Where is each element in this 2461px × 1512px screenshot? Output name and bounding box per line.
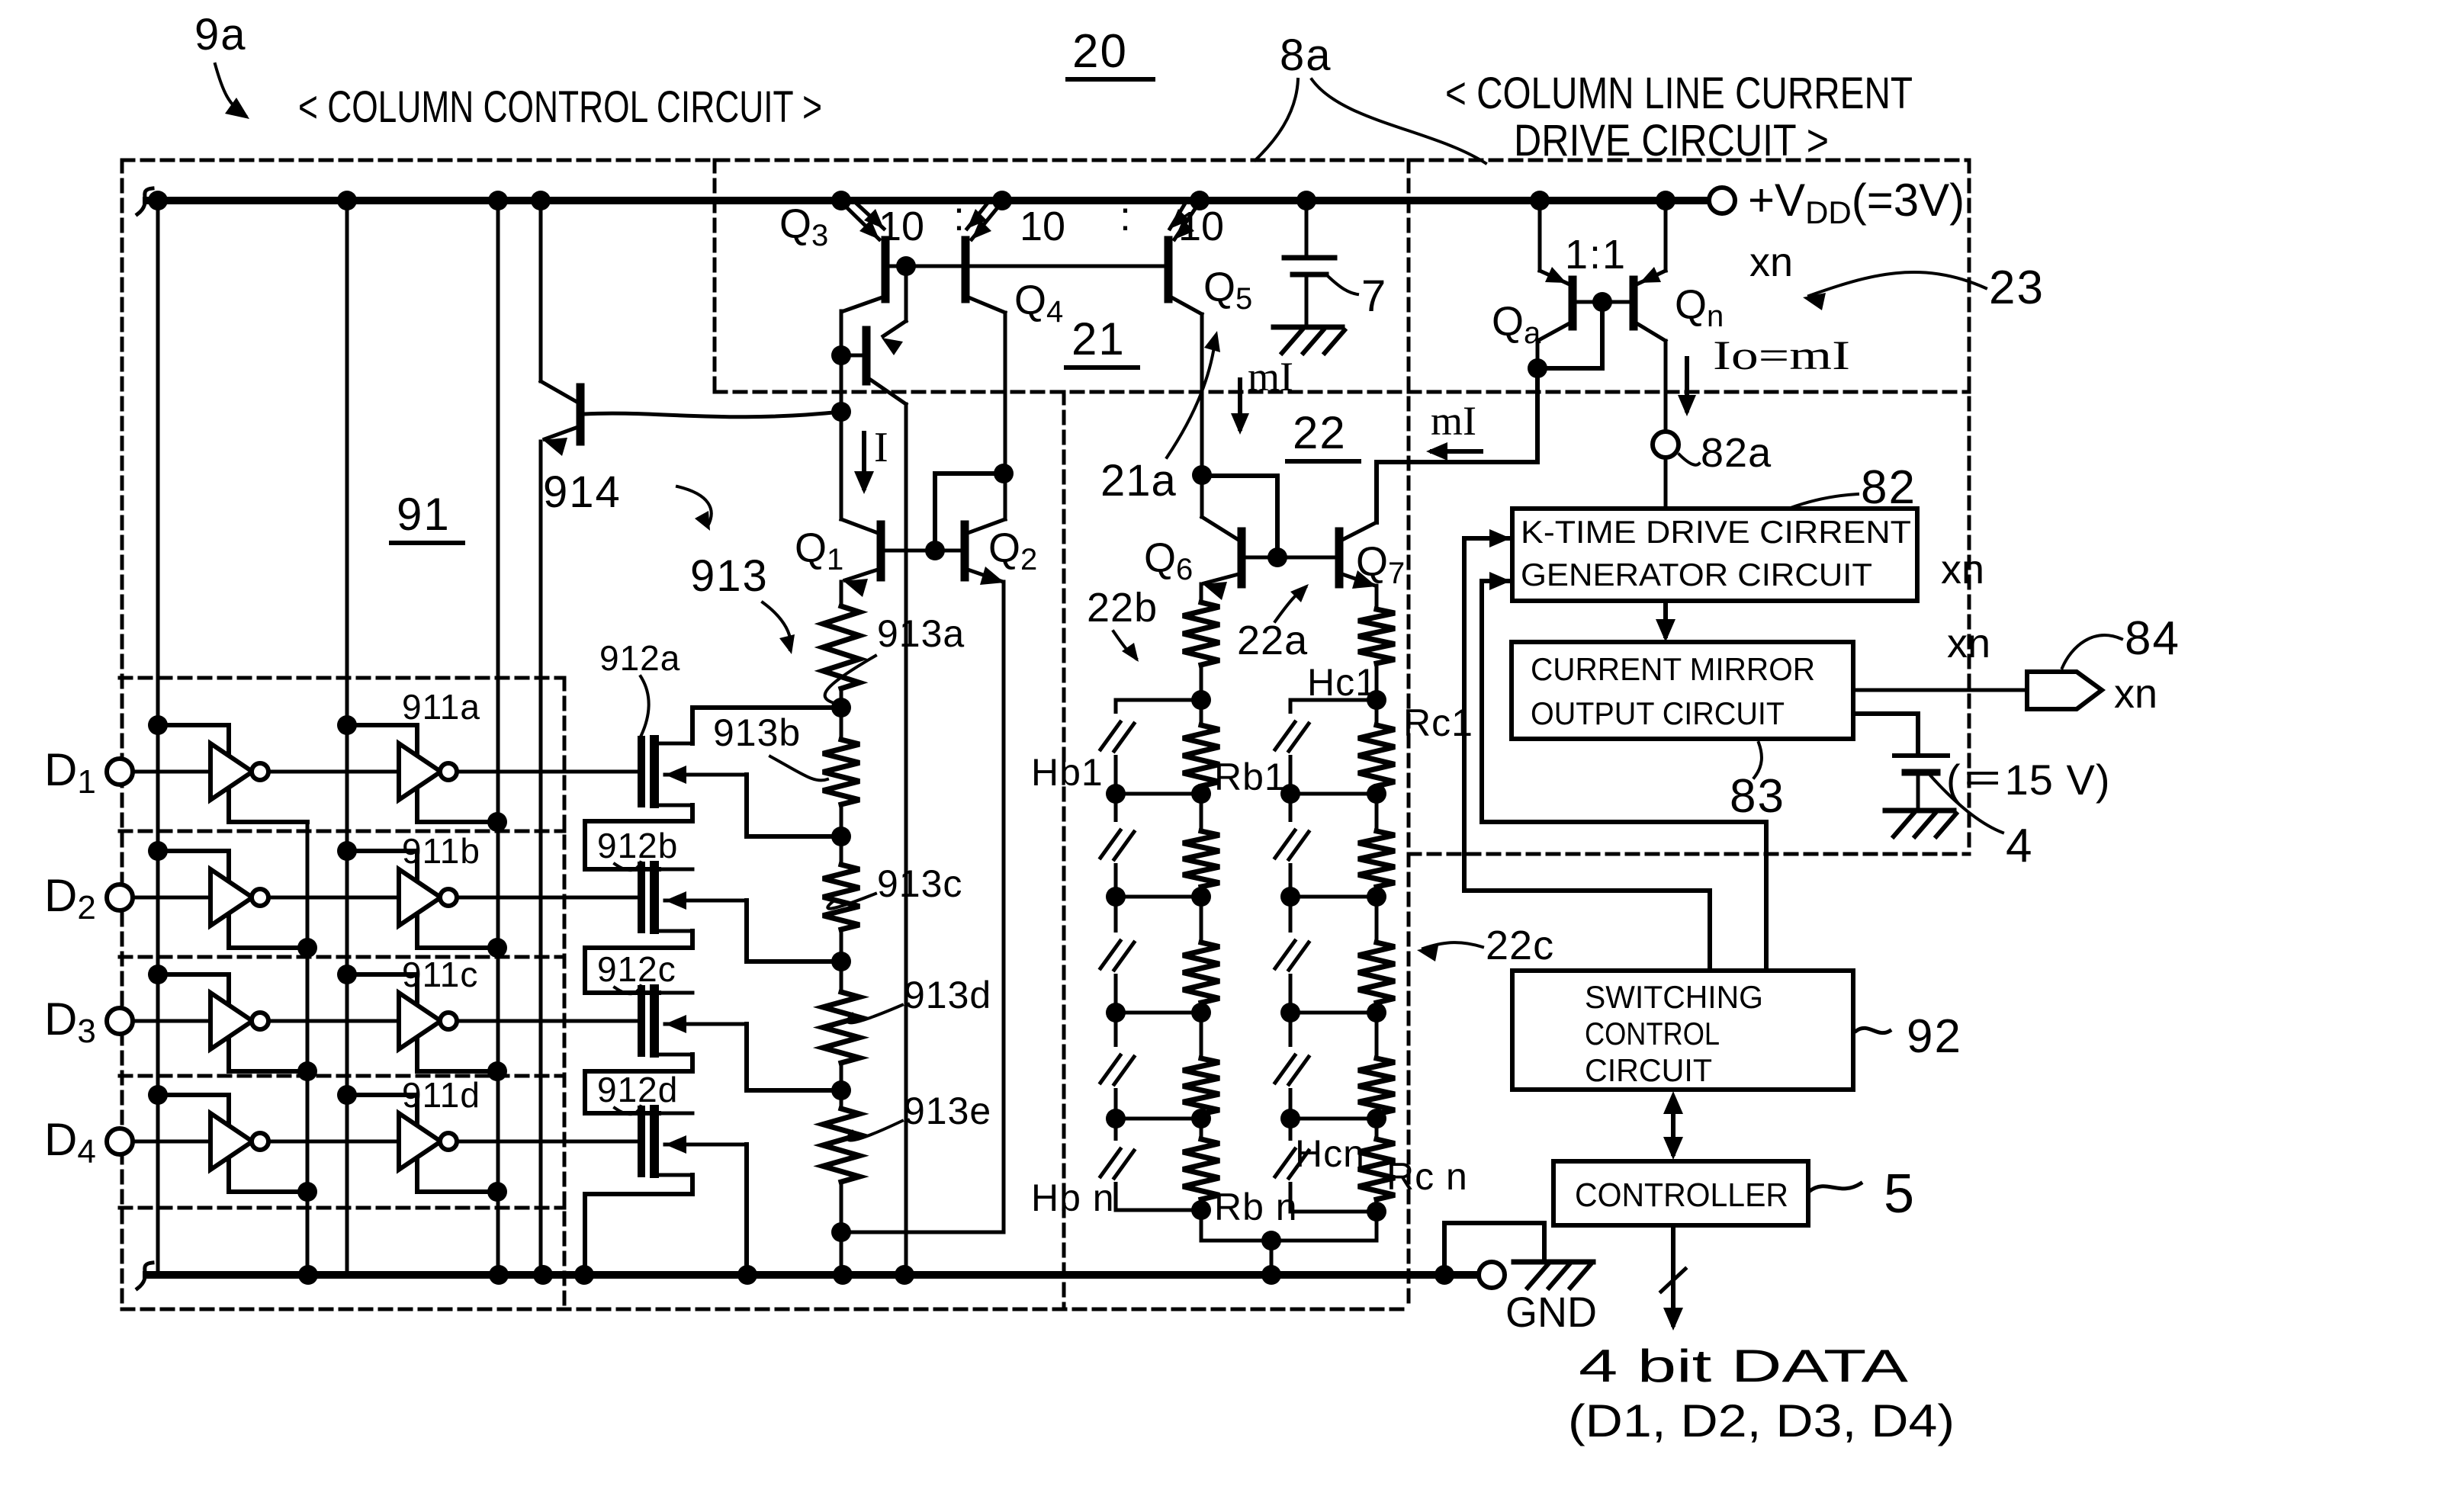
- inverter 911b triangle: [399, 869, 441, 926]
- wire VDD to Qa emitter: [1538, 201, 1542, 271]
- rungs Hb-Rb with junction dots: [1116, 792, 1201, 796]
- svg-text:911d: 911d: [402, 1075, 480, 1115]
- svg-text:83: 83: [1730, 770, 1785, 823]
- inverter 911d triangle: [399, 1113, 441, 1170]
- transistor Q4 emitter double diagonal with arrows: [972, 202, 1002, 239]
- leader from 913d: [848, 1005, 902, 1022]
- svg-text:DRIVE CIRCUIT >: DRIVE CIRCUIT >: [1514, 116, 1829, 165]
- bus slash on data arrow: [1661, 1269, 1685, 1292]
- input terminal D1: [107, 759, 133, 785]
- transistor Q2 collector diagonal: [968, 519, 1005, 533]
- transistor 912d drain stub: [659, 1112, 692, 1116]
- wire inverter 4-1 output to inverter 911d: [268, 1140, 399, 1144]
- wire feedback A from switching control to block 82 upper input: [1464, 538, 1710, 971]
- svg-text:GENERATOR CIRCUIT: GENERATOR CIRCUIT: [1521, 557, 1872, 592]
- transistor Qa base bar: [1569, 280, 1577, 326]
- transistor 912b drain stub: [659, 868, 692, 872]
- dashed box 9a bottom edge: [122, 1308, 1409, 1311]
- wire bus2 tap elbow row 4: [347, 1095, 497, 1192]
- wire block 83 output to connector 84: [1853, 689, 2027, 692]
- svg-text:OUTPUT CIRCUIT: OUTPUT CIRCUIT: [1531, 695, 1785, 731]
- wire 913b to node2: [840, 804, 843, 865]
- svg-text:Hcn: Hcn: [1295, 1132, 1365, 1175]
- junction dots on top VDD rail: [148, 191, 168, 210]
- break marks on Hb column: [1109, 714, 1123, 755]
- svg-text:Rb n: Rb n: [1214, 1186, 1298, 1228]
- wire 912d source chain down to GND rail: [585, 1175, 692, 1275]
- junction dot ladder node2: [831, 827, 851, 846]
- svg-text:22: 22: [1293, 407, 1347, 458]
- svg-text:913e: 913e: [904, 1090, 991, 1132]
- junction dot ladder bottom tie: [831, 1222, 851, 1242]
- wire Rb column connecting segments: [1200, 786, 1203, 831]
- svg-text::: :: [1120, 194, 1131, 239]
- wire Q3-Q4-Q5 base line: [885, 265, 1168, 268]
- transistor 912a drain stub: [659, 742, 692, 746]
- svg-text:4: 4: [2006, 820, 2032, 872]
- leader from 913b: [770, 756, 827, 780]
- break marks on Hc column: [1284, 714, 1297, 755]
- junction dot Q1/Q2 base: [925, 541, 945, 560]
- svg-text:10: 10: [1178, 204, 1224, 249]
- transistor Q3 emitter double diagonal with arrows: [841, 202, 879, 239]
- resistors Rb1..Rbn column: [1183, 725, 1219, 786]
- leader arrow from 23: [1809, 272, 1986, 296]
- svg-text:21a: 21a: [1100, 456, 1177, 506]
- wire 913a to node1: [840, 689, 843, 740]
- resistor 913d: [823, 992, 859, 1063]
- wire Q1/Q2 base line: [885, 549, 961, 553]
- current arrow Io: [1685, 358, 1689, 410]
- svg-text:10: 10: [1020, 204, 1065, 249]
- transistor Q1 base bar: [877, 525, 885, 577]
- leader arrow from 22b: [1113, 631, 1136, 659]
- junction dot Q6/Q7 base: [1267, 547, 1287, 567]
- svg-text:10: 10: [879, 204, 924, 249]
- wire Q2 collector down to ladder bottom tie: [1002, 582, 1006, 1232]
- transistor 912c drain stub: [659, 991, 692, 995]
- terminal +VDD: [1709, 188, 1735, 213]
- svg-text:91: 91: [397, 489, 451, 540]
- dashed column right edge of input decoder blocks: [563, 678, 567, 1309]
- junction dot Rb top node: [1191, 690, 1211, 710]
- transistor 912a gate bar: [638, 740, 645, 804]
- wire bus1 tap elbow row 1: [158, 725, 307, 822]
- inverter 3-1 triangle: [210, 993, 252, 1049]
- input terminal D3: [107, 1008, 133, 1034]
- wire transistor 914 base to Q3 collector node: [584, 412, 841, 417]
- dashed row divider D2 block: [120, 830, 564, 833]
- wire Q7 emitter into resistor Rc1 chain: [1375, 586, 1379, 609]
- wire Q6 emitter into resistor 22a: [1200, 584, 1203, 602]
- svg-text:913c: 913c: [877, 862, 962, 905]
- svg-text:23: 23: [1989, 262, 2045, 314]
- transistor Q6 base bar: [1238, 531, 1246, 584]
- dashed box 22 left edge: [1062, 392, 1066, 1309]
- svg-text:xn: xn: [2114, 671, 2157, 717]
- transistor 912b gate bar: [638, 865, 645, 929]
- leader arrow from 21a to block 21: [1167, 337, 1216, 457]
- dashed box 8a bottom edge: [1409, 852, 1969, 856]
- leader arrow from 9a: [215, 64, 246, 116]
- wire 912c source chain down to 912d drain: [585, 1055, 692, 1113]
- ground symbol below battery: [1885, 808, 1954, 814]
- wire Hc1..Hcn column with break marks: [1289, 700, 1293, 1212]
- svg-text:92: 92: [1907, 1010, 1962, 1063]
- battery 4 bottom plate: [1905, 769, 1937, 776]
- transistor Q2 base bar: [961, 525, 969, 577]
- svg-text:xn: xn: [1749, 239, 1793, 285]
- svg-text:1:1: 1:1: [1565, 232, 1627, 278]
- leader from 82 to block: [1791, 494, 1858, 508]
- wire Hbn bottom rung: [1116, 1209, 1201, 1212]
- junction dot ladder node1: [831, 698, 851, 717]
- transistor 912c channel bar: [650, 989, 659, 1053]
- capacitor 7 top plate: [1284, 255, 1335, 261]
- wire vertical bus 3 (x=653): [496, 201, 500, 1275]
- transistor 912d gate bar: [638, 1109, 645, 1173]
- wire 913e to GND rail: [840, 1182, 843, 1275]
- transistor Qa collector diagonal: [1537, 323, 1569, 341]
- wire 912d body down to GND rail: [744, 1144, 749, 1275]
- transistor 912b source stub with arrow: [659, 929, 692, 933]
- svg-text:I: I: [874, 424, 888, 471]
- wire cascode base to Q3 collector line: [841, 354, 863, 358]
- wire Q2 diode connection elbow: [935, 474, 1004, 551]
- svg-text:+VDD(=3V): +VDD(=3V): [1748, 175, 1965, 230]
- wire Hcn bottom rung: [1290, 1210, 1377, 1214]
- junction dots on bottom GND rail: [298, 1265, 318, 1285]
- wire Q5 collector down to Q6: [1200, 314, 1204, 517]
- svg-text:< COLUMN CONTROL CIRCUIT >: < COLUMN CONTROL CIRCUIT >: [298, 82, 822, 132]
- block 83: CURRENT MIRROR OUTPUT CIRCUIT: [1512, 642, 1853, 739]
- wire Qn collector down to terminal 82a: [1664, 341, 1668, 431]
- battery 4 top plate: [1894, 753, 1948, 758]
- block 92: SWITCHING CONTROL CIRCUIT: [1512, 971, 1853, 1090]
- resistor 22a (top of Rb chain): [1183, 602, 1219, 665]
- svg-text:912b: 912b: [597, 826, 678, 865]
- wire Q1 emitter into ladder: [840, 582, 843, 606]
- leader from 913: [763, 602, 791, 650]
- wire terminal 82a to block 82: [1664, 458, 1668, 509]
- inverter 911c output bubble: [440, 1013, 457, 1029]
- dashed box: column control circuit 9a outline (top edge): [122, 159, 1969, 162]
- transistor Qn emitter diagonal with arrow: [1638, 271, 1666, 284]
- wire bus2 tap elbow row 1: [347, 725, 497, 822]
- input terminal D4: [107, 1128, 133, 1154]
- junction dot Qa collector/base tie: [1528, 358, 1547, 378]
- wire feedback B from switching control to block 82 lower input: [1482, 581, 1766, 971]
- wire vertical bus 1 (x=207): [156, 201, 160, 1275]
- wire 912b body to ladder node 3: [747, 900, 839, 961]
- block 5: CONTROLLER: [1553, 1161, 1808, 1225]
- svg-text:(＝15 V): (＝15 V): [1946, 756, 2111, 804]
- inverter 911a output bubble: [440, 763, 457, 780]
- junction dot Q2 collector tie: [994, 464, 1014, 483]
- inverter 4-1 output bubble: [252, 1133, 268, 1150]
- svg-text:Hc1: Hc1: [1307, 661, 1377, 704]
- svg-text:84: 84: [2125, 612, 2180, 665]
- wire D3 input to first inverter: [133, 1019, 210, 1023]
- transistor 914 base bar: [577, 387, 585, 441]
- dashed row divider D3 block: [120, 955, 564, 959]
- junction dot ladder node3: [831, 952, 851, 971]
- wire inverter 911a output to transistor 912a gate: [457, 770, 639, 774]
- dashed row divider D4 block: [120, 1074, 564, 1078]
- junction dot ladder node4: [831, 1080, 851, 1100]
- transistor Q3 base bar: [882, 240, 890, 299]
- wire inverter 3-1 output to inverter 911c: [268, 1019, 399, 1023]
- svg-text:912a: 912a: [599, 638, 680, 678]
- svg-text:22a: 22a: [1237, 618, 1308, 663]
- wire Rc column connecting segments: [1375, 786, 1379, 831]
- svg-text:8a: 8a: [1280, 30, 1332, 80]
- svg-text:Rb1: Rb1: [1214, 756, 1287, 798]
- wire 913d to node4: [840, 1063, 843, 1109]
- wire Q6/Q7 base line: [1246, 556, 1336, 560]
- wire Rcn bottom to tie bar: [1375, 1199, 1379, 1241]
- wire VDD rail to capacitor 7: [1305, 201, 1309, 258]
- leader from 84 to connector: [2062, 635, 2122, 668]
- wire Hc top rung: [1290, 698, 1377, 702]
- wire Q6 diode connection elbow: [1202, 476, 1277, 557]
- wire ladder bottom tie to Q2: [841, 1231, 1004, 1234]
- transistor 912b channel bar: [650, 865, 659, 929]
- svg-text:912c: 912c: [597, 949, 676, 989]
- svg-text:SWITCHING: SWITCHING: [1585, 979, 1763, 1015]
- ground symbol at GND terminal: [1514, 1260, 1593, 1265]
- inverter 911a triangle: [399, 743, 441, 800]
- svg-text:mI: mI: [1431, 398, 1476, 444]
- junction dot 914 base tap: [831, 402, 851, 422]
- transistor 912c body stub arrow: [665, 1022, 747, 1026]
- svg-text:20: 20: [1072, 25, 1128, 78]
- svg-text:913b: 913b: [713, 711, 801, 754]
- dashed row divider D1 block: [120, 676, 564, 680]
- wire inverter 911b output to transistor 912b gate: [457, 896, 639, 900]
- cascode transistor base bar: [863, 330, 871, 381]
- junction dot Q6 base tie: [1192, 465, 1212, 485]
- svg-text:22c: 22c: [1486, 923, 1554, 968]
- leader from 913a: [825, 656, 875, 705]
- svg-text:< COLUMN LINE CURRENT: < COLUMN LINE CURRENT: [1445, 69, 1913, 118]
- wire bus2 tap elbow row 2: [347, 851, 497, 948]
- wire inverter-output collector bus (x=403): [306, 822, 310, 1275]
- inverter 1-1 triangle: [210, 743, 252, 800]
- svg-text::: :: [953, 194, 965, 239]
- wire inverter 911d output to transistor 912d gate: [457, 1140, 639, 1144]
- transistor Q6 emitter diagonal with arrow: [1204, 574, 1239, 583]
- wire 912a drain to node 913a/913b: [692, 708, 839, 743]
- break squiggle at left end of VDD rail: [137, 188, 153, 214]
- transistor 914 collector diagonal from bus 4: [541, 381, 578, 403]
- transistor 912d source stub with arrow: [659, 1173, 692, 1177]
- svg-text:(D1, D2, D3, D4): (D1, D2, D3, D4): [1568, 1395, 1955, 1446]
- transistor 914 emitter diagonal with arrow: [545, 427, 578, 439]
- transistor Qa emitter diagonal with arrow: [1540, 271, 1568, 284]
- wire vertical bus 2 (x=455): [345, 201, 349, 1275]
- junction dot Rc top node: [1367, 690, 1386, 710]
- resistor Rc1 top element: [1358, 609, 1395, 663]
- transistor Q1 collector diagonal: [841, 519, 878, 533]
- arrow block 82 to block 83: [1663, 601, 1668, 636]
- wire base line tap down to cascode: [904, 266, 908, 321]
- transistor Q7 base bar: [1335, 531, 1344, 584]
- resistors Rc column elements: [1358, 725, 1395, 786]
- svg-text:7: 7: [1361, 271, 1386, 321]
- wire Rbn bottom to tie bar: [1200, 1199, 1203, 1241]
- cascode transistor emitter diagonal: [869, 379, 906, 404]
- transistor 912a body stub arrow: [665, 773, 747, 777]
- inverter 911c triangle: [399, 993, 441, 1049]
- wire +VDD top supply rail: [146, 197, 1708, 204]
- wire 912a body to ladder node 2: [747, 775, 839, 836]
- wire Hb1..Hbn column with break marks: [1114, 700, 1118, 1210]
- wire inverter 911c output to transistor 912c gate: [457, 1019, 639, 1023]
- leader from label 914: [677, 486, 712, 526]
- tilde leader from 92 to block: [1856, 1028, 1890, 1032]
- wire bus1 tap elbow row 4: [158, 1095, 307, 1192]
- svg-text:913d: 913d: [904, 974, 991, 1016]
- wire bottom tie to GND rail: [1270, 1241, 1274, 1275]
- wire vertical bus 4 lower segment (x=709): [539, 441, 543, 1275]
- wire network bottom tie bar: [1201, 1239, 1377, 1243]
- transistor Qn base bar: [1630, 280, 1638, 326]
- capacitor 7 bottom plate: [1293, 272, 1326, 278]
- inverter 2-1 triangle: [210, 869, 252, 926]
- leader from 83 to block: [1754, 743, 1762, 778]
- leader from 913e: [848, 1121, 902, 1141]
- tilde leader from 5 to controller block: [1810, 1183, 1861, 1191]
- svg-text:82a: 82a: [1701, 430, 1772, 476]
- resistor 913e: [823, 1109, 859, 1182]
- wire Qa collector down: [1536, 341, 1540, 368]
- leader arrow from 22c to Rc network: [1423, 942, 1483, 949]
- transistor Q3 collector diagonal: [843, 297, 882, 311]
- transistor Q5 base bar: [1165, 240, 1173, 299]
- svg-text:912d: 912d: [597, 1070, 678, 1109]
- resistor 913b: [823, 740, 859, 804]
- wire 913c to node3: [840, 929, 843, 992]
- svg-text:GND: GND: [1505, 1288, 1597, 1336]
- wire Hb top rung: [1116, 698, 1201, 702]
- wire bus1 tap elbow row 3: [158, 974, 307, 1071]
- dashed box 8a right edge: [1968, 160, 1971, 854]
- svg-text:22b: 22b: [1087, 585, 1158, 631]
- leader from 913c: [827, 894, 875, 909]
- inverter 911b output bubble: [440, 889, 457, 906]
- inverter 4-1 triangle: [210, 1113, 252, 1170]
- junction dot Rcn bottom: [1367, 1202, 1386, 1221]
- wire mI from Qa mirror to Q7 collector: [1377, 368, 1537, 522]
- junction dot Qa/Qn base: [1592, 292, 1612, 312]
- transistor 912c gate bar: [638, 989, 645, 1053]
- transistor Q7 emitter diagonal with arrow: [1342, 574, 1375, 586]
- svg-text:mI: mI: [1248, 354, 1293, 400]
- leader from 7 to capacitor: [1328, 276, 1357, 294]
- transistor 912d channel bar: [650, 1109, 659, 1173]
- wire vertical bus 4 upper segment (x=709): [539, 201, 543, 381]
- dashed divider y=514 (bottom of block 21 / top of block 22): [715, 390, 1969, 394]
- wire 22a to Rb1 top node: [1200, 665, 1203, 725]
- dashed box 9a left edge: [120, 160, 124, 1309]
- break squiggle at left end of GND rail: [137, 1263, 153, 1289]
- leader from 4 to ground: [1931, 776, 2003, 833]
- svg-text:K-TIME DRIVE CIRRENT: K-TIME DRIVE CIRRENT: [1521, 514, 1911, 550]
- resistor 913c: [823, 865, 859, 929]
- transistor Q5 emitter double diagonal with arrows: [1174, 202, 1200, 239]
- rungs Hc-Rc with junction dots: [1290, 792, 1377, 796]
- wire Rc1 to Rc top node: [1375, 663, 1379, 725]
- svg-text:Rc n: Rc n: [1386, 1155, 1468, 1198]
- svg-text:911b: 911b: [402, 831, 480, 871]
- arrow between block 92 and controller (double headed): [1671, 1099, 1675, 1154]
- wire inverter 2-1 output to inverter 911b: [268, 896, 399, 900]
- terminal 82a: [1653, 432, 1679, 457]
- wire 912b source chain down to 912c drain: [585, 931, 692, 993]
- output connector 84: [2027, 672, 2102, 709]
- wire capacitor 7 to ground: [1305, 274, 1309, 327]
- svg-text:21: 21: [1071, 313, 1126, 364]
- leader from terminal 82a: [1679, 454, 1699, 465]
- svg-text:913: 913: [690, 551, 769, 601]
- wire battery to ground: [1916, 772, 1920, 811]
- leader arrow from 22a: [1275, 587, 1306, 621]
- terminal GND: [1479, 1262, 1505, 1288]
- junction dot Rbn bottom: [1191, 1200, 1211, 1220]
- svg-text:Io=mI: Io=mI: [1713, 332, 1850, 378]
- inverter 2-1 output bubble: [252, 889, 268, 906]
- wire bus1 tap elbow row 2: [158, 851, 307, 948]
- svg-text:CONTROLLER: CONTROLLER: [1575, 1177, 1788, 1214]
- svg-text:5: 5: [1884, 1164, 1914, 1225]
- wire D4 input to first inverter: [133, 1140, 210, 1144]
- wire Qa/Qn base line: [1577, 300, 1629, 304]
- wire VDD to Qn emitter: [1664, 201, 1668, 271]
- wire GND terminal elbow to ground symbol: [1444, 1223, 1544, 1275]
- svg-text:911c: 911c: [402, 955, 478, 994]
- wire cascode emitter long vertical to GND rail: [904, 404, 908, 1275]
- dashed row divider below D4 block: [120, 1206, 564, 1210]
- transistor 912c source stub with arrow: [659, 1053, 692, 1057]
- svg-text:914: 914: [543, 467, 622, 517]
- svg-text:CURRENT MIRROR: CURRENT MIRROR: [1531, 651, 1815, 687]
- svg-text:xn: xn: [1947, 621, 1990, 666]
- svg-text:xn: xn: [1941, 547, 1984, 592]
- inverter 911d output bubble: [440, 1133, 457, 1150]
- inverter 3-1 output bubble: [252, 1013, 268, 1029]
- transistor Qn collector diagonal: [1637, 323, 1666, 341]
- junction dot bottom tie: [1261, 1231, 1281, 1250]
- wire Q3 collector down to Q1: [840, 311, 843, 519]
- svg-text:913a: 913a: [877, 612, 965, 655]
- svg-text:82: 82: [1861, 461, 1916, 514]
- transistor 912a channel bar: [650, 740, 659, 804]
- resistor 913a: [823, 606, 859, 689]
- wire bus2 tap elbow row 3: [347, 974, 497, 1071]
- dashed box 21 left edge: [713, 160, 717, 392]
- svg-text:911a: 911a: [402, 687, 480, 727]
- transistor 912d body stub arrow: [665, 1143, 747, 1147]
- wire inverter 1-1 output to inverter 911a: [268, 770, 399, 774]
- transistor Q4 collector diagonal: [969, 297, 1005, 313]
- current arrow I: [862, 433, 866, 488]
- wire GND bottom rail: [146, 1271, 1478, 1279]
- block 82: K-TIME DRIVE CIRRENT GENERATOR CIRCUIT: [1512, 509, 1917, 601]
- junction dot on base line: [896, 256, 916, 276]
- transistor Q5 collector diagonal: [1171, 297, 1202, 314]
- input terminal D2: [107, 884, 133, 910]
